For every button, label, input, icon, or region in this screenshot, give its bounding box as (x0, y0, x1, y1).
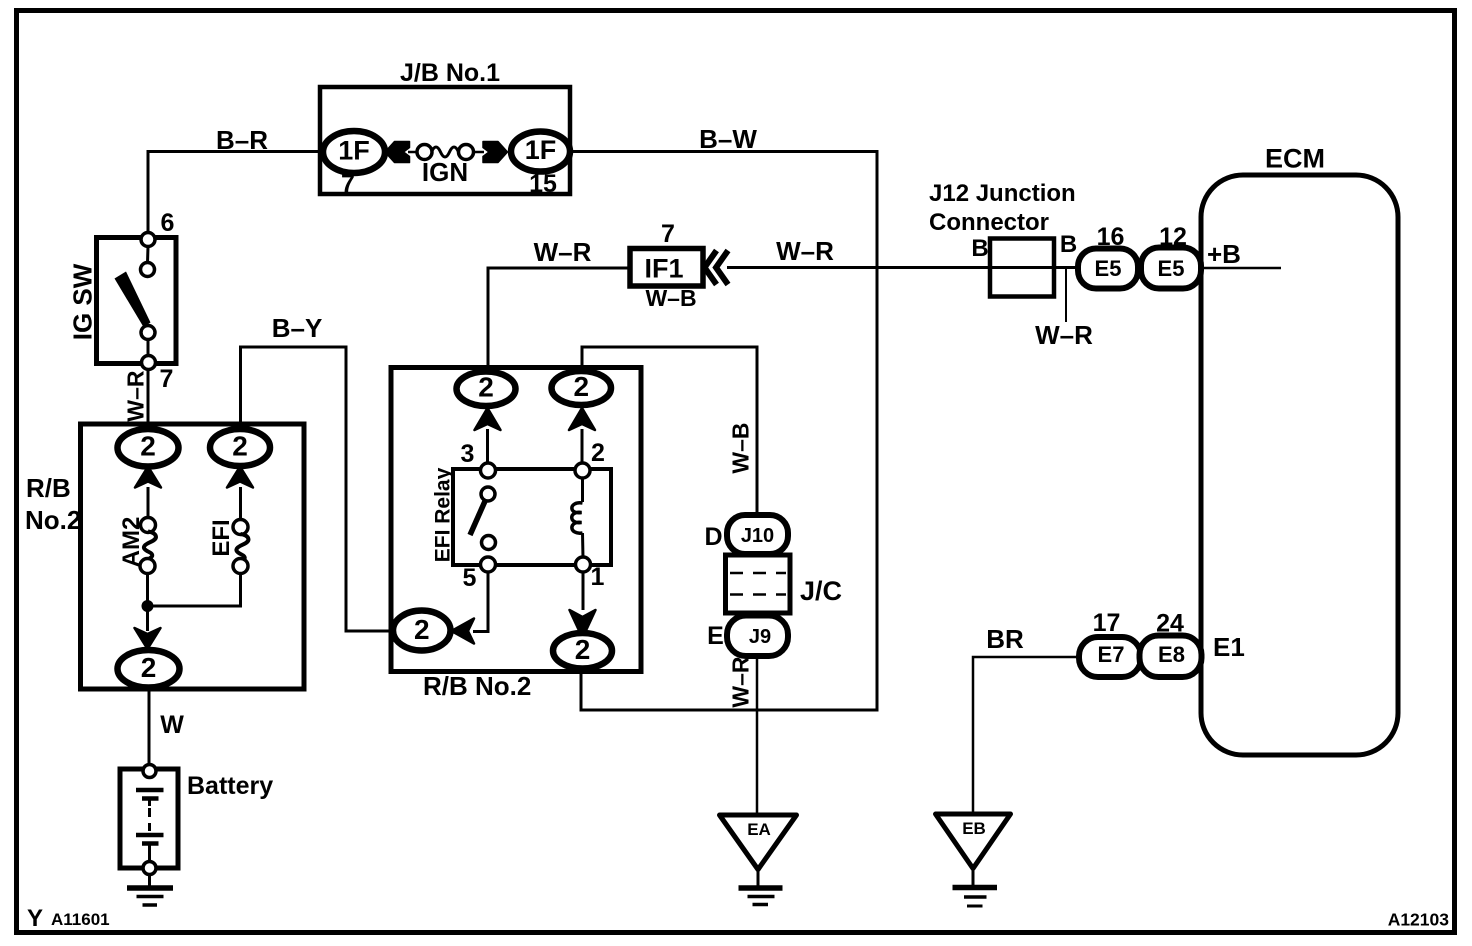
svg-text:2: 2 (478, 372, 494, 403)
svg-text:6: 6 (161, 209, 175, 237)
connector 2 (relay pin 3, top left) (457, 372, 516, 464)
connector 2 (relay pin 5, bottom left) (393, 611, 474, 651)
svg-text:B: B (971, 235, 988, 262)
fuse IGN (385, 142, 508, 188)
svg-text:IGN: IGN (422, 157, 468, 187)
svg-text:+B: +B (1207, 239, 1241, 269)
wire W-R from IF1 to ECM +B (727, 266, 1078, 269)
wire B-R from J/B No.1 to IG SW terminal 6 (148, 152, 330, 235)
svg-text:BR: BR (986, 624, 1024, 654)
svg-text:EFI: EFI (208, 519, 235, 556)
svg-text:B–R: B–R (216, 125, 268, 155)
svg-text:J10: J10 (741, 525, 774, 547)
svg-text:2: 2 (591, 439, 605, 467)
node +B (1201, 267, 1281, 270)
svg-text:Y: Y (27, 905, 43, 932)
svg-text:B–W: B–W (699, 124, 757, 154)
svg-text:No.2: No.2 (25, 505, 81, 535)
svg-text:W–R: W–R (728, 656, 754, 708)
svg-text:IF1: IF1 (644, 254, 683, 284)
svg-text:W–R: W–R (534, 237, 592, 267)
wire from relay pin 1 to connector 2 (582, 572, 585, 610)
wire B-W from J/B No.1 pin 15 to R/B No.2 relay block (570, 152, 877, 711)
wire to bottom connector (146, 606, 149, 631)
svg-text:E1: E1 (1213, 632, 1245, 662)
svg-text:E7: E7 (1098, 642, 1125, 667)
relay block R/B No.2 (middle) (391, 368, 641, 702)
svg-text:W: W (160, 711, 184, 739)
svg-text:J/B No.1: J/B No.1 (400, 59, 500, 87)
junction block J/B No.1 (320, 59, 570, 194)
wire B-Y from EFI fuse connector to R/B No.2 relay block (241, 347, 393, 631)
svg-text:1F: 1F (338, 136, 370, 166)
svg-text:E5: E5 (1158, 256, 1185, 281)
svg-text:7: 7 (160, 365, 174, 393)
svg-text:2: 2 (232, 431, 248, 462)
svg-text:24: 24 (1156, 610, 1184, 638)
connector 2 (relay pin 1, bottom right) (553, 610, 612, 669)
svg-text:ECM: ECM (1265, 144, 1325, 174)
svg-text:E5: E5 (1095, 256, 1122, 281)
svg-text:W–R: W–R (776, 236, 834, 266)
connector 2 (EFI branch, top) (210, 429, 270, 488)
connector E7 pin 17 (1079, 609, 1141, 677)
connector E5 pin 12 (1141, 223, 1201, 289)
svg-text:3: 3 (461, 440, 475, 468)
svg-text:B–Y: B–Y (272, 313, 323, 343)
svg-text:15: 15 (529, 170, 557, 198)
svg-text:2: 2 (573, 371, 589, 402)
junction node (AM2/EFI) (142, 600, 154, 612)
wire W-B from R/B No.2 to J10 (582, 347, 757, 515)
svg-text:W–B: W–B (728, 422, 754, 473)
ground EA (720, 815, 797, 905)
svg-text:5: 5 (463, 564, 477, 592)
svg-text:2: 2 (140, 431, 156, 462)
svg-text:J9: J9 (749, 626, 771, 648)
junction connector J12 (929, 180, 1077, 297)
wire W from R/B No.2 to battery (148, 689, 151, 766)
ground EB (936, 814, 1011, 906)
svg-text:17: 17 (1093, 609, 1121, 637)
svg-text:W–B: W–B (645, 285, 696, 311)
wire from relay pin 5 to connector 2 (473, 572, 488, 632)
connector E5 pin 16 (1078, 223, 1138, 289)
svg-text:EFI Relay: EFI Relay (432, 467, 455, 562)
svg-text:E: E (707, 622, 724, 650)
connector 2 (bottom of R/B No.2 left) (118, 628, 180, 688)
svg-text:D: D (704, 523, 722, 551)
fuse EFI (153, 487, 248, 606)
ground (battery) (127, 875, 173, 906)
svg-text:2: 2 (575, 634, 591, 665)
connector 1F pin 15 (511, 132, 570, 199)
svg-text:7: 7 (661, 220, 675, 248)
ignition switch IG SW (68, 209, 177, 393)
svg-text:R/B No.2: R/B No.2 (423, 671, 531, 701)
svg-text:16: 16 (1097, 223, 1125, 251)
svg-text:2: 2 (414, 614, 430, 645)
fusible link IF1 (630, 220, 728, 311)
svg-text:AM2: AM2 (118, 517, 145, 568)
svg-text:A11601: A11601 (51, 910, 110, 929)
connector J9 (707, 616, 788, 657)
battery (120, 765, 273, 875)
svg-text:J12 Junction: J12 Junction (929, 180, 1076, 207)
fuse AM2 (118, 487, 156, 601)
wire W-R from R/B No.2 to fusible link IF1 (488, 268, 630, 372)
svg-text:12: 12 (1159, 223, 1187, 251)
svg-text:1: 1 (591, 563, 605, 591)
wire BR from ground EB to E7 (973, 657, 1079, 814)
svg-text:2: 2 (141, 652, 157, 683)
svg-text:J/C: J/C (800, 576, 842, 606)
wire W-R from J9 to ground EA (756, 656, 759, 815)
svg-text:EB: EB (962, 819, 986, 838)
svg-text:IG SW: IG SW (68, 263, 98, 340)
svg-text:EA: EA (747, 820, 771, 839)
svg-text:A12103: A12103 (1388, 910, 1450, 930)
svg-text:E8: E8 (1158, 642, 1185, 667)
wire W-R from IG SW terminal 7 to R/B No.2 (147, 370, 150, 431)
connector 2 (relay pin 2, top right) (552, 371, 612, 463)
connector 1F pin 7 (323, 131, 385, 198)
svg-text:R/B: R/B (26, 473, 71, 503)
relay block R/B No.2 (left) (25, 424, 304, 689)
svg-text:W–R: W–R (1035, 320, 1093, 350)
svg-text:B: B (1060, 231, 1077, 258)
svg-text:Battery: Battery (187, 772, 273, 800)
leader + label W-R below J12 (1065, 268, 1067, 322)
relay EFI Relay (432, 439, 612, 592)
junction connector J/C (726, 555, 843, 613)
ECM module (1201, 144, 1398, 756)
svg-text:Connector: Connector (929, 209, 1049, 236)
connector 2 (AM2 branch, top) (118, 429, 179, 488)
connector E8 pin 24 (1140, 610, 1202, 678)
svg-text:W–R: W–R (123, 370, 149, 422)
svg-text:1F: 1F (525, 135, 557, 165)
svg-text:7: 7 (341, 170, 355, 198)
connector J10 (704, 515, 788, 554)
